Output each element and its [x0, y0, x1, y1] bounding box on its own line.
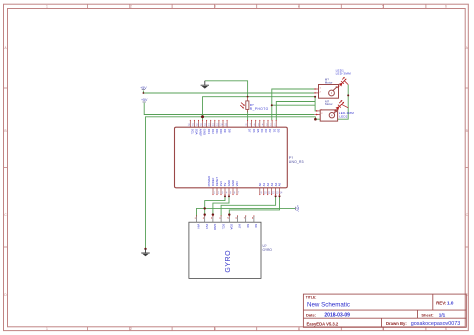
netflag +5V #3 rotated: [295, 205, 299, 212]
svg-text:D12: D12: [211, 129, 215, 135]
wire gnd long rail: [146, 85, 349, 249]
svg-text:INT: INT: [238, 224, 242, 229]
svg-text:3V3: 3V3: [205, 224, 209, 229]
wire +5V#3 to GYRO VIN: [197, 208, 296, 216]
wire A5 to GYRO SDA: [229, 196, 279, 216]
photoresistor R?: [240, 97, 249, 112]
wire gnd line mid: [203, 97, 317, 121]
svg-text:3: 3: [214, 327, 216, 331]
wire D0 riser: [276, 102, 315, 121]
UNO top-left pin header: [190, 120, 227, 127]
svg-text:D0: D0: [276, 129, 280, 133]
svg-text:New Schematic: New Schematic: [307, 302, 350, 309]
svg-text:TITLE:: TITLE:: [306, 295, 317, 299]
svg-text:VIN: VIN: [197, 224, 201, 229]
svg-text:D10: D10: [219, 129, 223, 135]
wire D1 to motor M1 pin1: [272, 89, 314, 120]
svg-text:D11: D11: [215, 129, 219, 134]
svg-text:REV:: REV:: [436, 300, 447, 305]
svg-text:Motor: Motor: [325, 81, 333, 85]
svg-text:D13: D13: [207, 129, 211, 135]
arduino P? UNO_R3 body: [175, 127, 288, 188]
svg-text:NC: NC: [246, 224, 250, 228]
led LED2: [334, 100, 348, 111]
arduino designator: [289, 156, 304, 164]
svg-text:2: 2: [130, 5, 132, 9]
wire UNO 5V to GYRO 3V3: [205, 196, 225, 216]
svg-text:6: 6: [445, 5, 447, 9]
svg-text:SCL: SCL: [221, 224, 225, 230]
svg-text:1: 1: [46, 327, 48, 331]
netflag +5V #1: [140, 86, 147, 90]
svg-text:5: 5: [382, 5, 384, 9]
svg-text:D4: D4: [260, 129, 264, 133]
svg-text:2018-03-09: 2018-03-09: [324, 312, 350, 318]
svg-text:NC: NC: [254, 224, 258, 228]
svg-text:1/1: 1/1: [439, 312, 446, 317]
svg-text:1: 1: [46, 5, 48, 9]
svg-text:4: 4: [298, 5, 300, 9]
svg-text:SCL: SCL: [191, 129, 195, 135]
UNO bottom-right analog header: [260, 188, 280, 195]
svg-text:SDA: SDA: [195, 129, 199, 135]
svg-text:Motor: Motor: [325, 102, 333, 106]
UNO top-right pin header: [248, 120, 277, 127]
svg-text:D3: D3: [264, 129, 268, 133]
wire +5V#2 to motor M2 pin2: [144, 103, 314, 115]
svg-text:+5V: +5V: [141, 98, 148, 102]
svg-text:3: 3: [214, 5, 216, 9]
svg-text:R_PHOTO: R_PHOTO: [250, 107, 269, 111]
ground symbol bottom-left: [141, 249, 150, 256]
svg-text:+5V: +5V: [140, 86, 147, 90]
svg-text:gosakocepasov0073: gosakocepasov0073: [411, 321, 460, 327]
svg-text:GYRO: GYRO: [263, 248, 273, 252]
motor M2 pin numbers: [321, 110, 323, 116]
motor M1 pins: [314, 89, 318, 93]
motor M1 labels: [325, 78, 333, 85]
svg-text:D5: D5: [256, 129, 260, 133]
title block: [303, 294, 466, 327]
svg-text:GND: GND: [213, 224, 217, 230]
UNO bottom-left power header: [213, 188, 237, 195]
svg-text:1.0: 1.0: [447, 300, 454, 305]
gyro pin header: [197, 216, 254, 222]
svg-text:+5V: +5V: [295, 205, 299, 212]
svg-text:Date:: Date:: [306, 312, 316, 317]
svg-text:POWER: POWER: [207, 176, 211, 187]
motor M1 pin numbers: [320, 88, 322, 94]
gyro designator: [263, 244, 273, 252]
svg-text:EasyEDA V5.3.2: EasyEDA V5.3.2: [307, 321, 339, 326]
svg-text:LED-3MM: LED-3MM: [336, 72, 352, 76]
svg-text:D8: D8: [227, 129, 231, 133]
junction dots: [143, 92, 350, 250]
svg-text:D6: D6: [252, 129, 256, 133]
svg-text:A5: A5: [278, 182, 282, 186]
wire photoresistor to D7: [247, 111, 249, 121]
svg-text:Drawn By:: Drawn By:: [386, 321, 407, 326]
svg-text:VIN: VIN: [235, 182, 239, 187]
led LED1 labels: [336, 69, 352, 76]
wire UNO GND to GYRO GND: [213, 196, 229, 216]
wire gnd-top to photoresistor: [205, 81, 248, 97]
svg-text:4: 4: [298, 327, 300, 331]
wire +5V#1 to motor M1 pin2: [143, 91, 314, 94]
photoresistor labels: [250, 103, 269, 111]
motor M1 body: [319, 85, 339, 99]
wire A4 to GYRO SCL: [221, 196, 276, 216]
svg-text:Sheet:: Sheet:: [421, 312, 433, 317]
svg-text:D1: D1: [272, 129, 276, 133]
svg-text:D2: D2: [268, 129, 272, 133]
led LED1: [338, 77, 349, 88]
svg-text:2: 2: [130, 327, 132, 331]
svg-text:GND: GND: [203, 129, 207, 135]
svg-text:D9: D9: [223, 129, 227, 133]
motor M2 pins: [314, 111, 320, 115]
svg-text:UNO_R3: UNO_R3: [289, 160, 304, 164]
motor M2 labels: [325, 99, 333, 106]
netflag +5V #2: [141, 98, 148, 102]
svg-text:AREF: AREF: [199, 129, 203, 137]
svg-text:D7: D7: [248, 129, 252, 133]
motor M2 body: [320, 110, 337, 121]
svg-text:LED2: LED2: [339, 114, 348, 118]
led LED2 labels: [339, 111, 355, 118]
wire D1 branch to motor M2 pin1: [272, 104, 315, 106]
gyro U? body: [189, 222, 261, 278]
svg-text:SDA: SDA: [230, 224, 234, 230]
ground symbol top: [201, 81, 209, 89]
svg-text:GYRO: GYRO: [225, 250, 232, 273]
